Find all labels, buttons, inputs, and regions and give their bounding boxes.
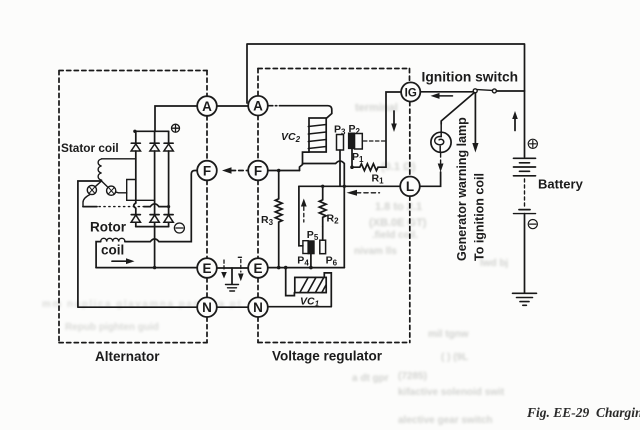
wire: IG to switch <box>420 91 473 93</box>
terminal F2 <box>248 161 268 181</box>
terminal N1 <box>197 297 217 317</box>
arrow: down (dashed) at E ground <box>221 260 227 279</box>
arrow: left flow toward IG <box>431 93 453 99</box>
ignition switch contacts <box>473 89 477 93</box>
terminal A2 <box>248 96 268 116</box>
svg-text:Alternator: Alternator <box>95 349 160 364</box>
svg-text:Voltage regulator: Voltage regulator <box>272 349 383 364</box>
terminal L <box>400 177 420 197</box>
svg-text:E: E <box>202 261 211 276</box>
svg-text:N: N <box>253 300 263 315</box>
wire: E rail in alternator <box>96 267 197 269</box>
diode D2 <box>150 131 159 214</box>
wire: L rail <box>299 185 400 187</box>
terminal letters <box>202 99 414 316</box>
svg-text:A: A <box>202 99 212 114</box>
terminal E2 <box>248 258 268 278</box>
wire: lamp to L (dashed with down arrow) <box>440 154 442 164</box>
wire: A1-A2 link <box>217 105 248 107</box>
wire: E rail in regulator <box>268 267 345 269</box>
wire: R1 to IG <box>386 92 401 167</box>
VC2 armature to F line <box>300 152 310 170</box>
resistor R1 <box>352 164 386 171</box>
svg-text:Generator warning lamp: Generator warning lamp <box>455 117 469 261</box>
battery minus mark <box>528 220 537 229</box>
wire: rectifier + bus <box>135 130 169 132</box>
arrow: field current <box>112 258 135 264</box>
wire: VC1 right lead to N rail <box>268 273 332 307</box>
svg-text:Stator coil: Stator coil <box>61 141 119 155</box>
contact P5 (moving, solid) <box>308 241 314 254</box>
wire: top bus from A2 to battery <box>247 44 525 157</box>
rotor coil <box>101 238 125 241</box>
svg-text:coil: coil <box>101 243 124 258</box>
arrow: left flow (dashed) on L rail <box>347 190 380 196</box>
svg-text:P4: P4 <box>297 255 309 268</box>
wire: armature bar to E drop (hop over P3 drop) <box>303 161 345 268</box>
terminal E1 <box>197 258 217 278</box>
wire: rectifier - bus <box>136 226 169 228</box>
wire: dashed from P2 partner to IG drop <box>364 140 386 142</box>
wire: P5 stem to E rail <box>310 254 312 268</box>
svg-text:L: L <box>406 179 414 194</box>
terminal IG <box>401 82 420 101</box>
diode D3 <box>164 131 173 214</box>
battery internal dashed link <box>524 179 526 207</box>
wire: A1 to rectifier + bus <box>155 106 197 131</box>
svg-text:P5: P5 <box>307 229 319 242</box>
diode D1 <box>131 131 140 203</box>
arrow: up flow (dashed) in P5 loop <box>301 199 307 223</box>
wire: VC1 left lead to E rail <box>286 268 295 296</box>
svg-text:E: E <box>253 261 262 276</box>
battery plus mark <box>528 139 537 148</box>
wire: N1-N2 link <box>217 306 248 308</box>
wire: rotor right lead to F1 (hop over rectifier drop) <box>125 171 197 242</box>
resistor R3 <box>275 171 282 268</box>
svg-text:F: F <box>254 163 262 178</box>
wire: P2 drop to node P1 <box>351 149 353 167</box>
svg-text:F: F <box>203 163 211 178</box>
svg-text:VC1: VC1 <box>300 296 320 309</box>
wire: R2 to P6 <box>322 227 324 241</box>
minus terminal mark of rectifier <box>174 223 184 233</box>
terminal N2 <box>248 297 268 317</box>
relay coil VC2 <box>308 118 326 152</box>
ground at E <box>226 268 239 291</box>
contact P2 (moving, solid) <box>349 133 355 148</box>
contact P5 partner <box>303 241 308 254</box>
wire: F1-F2 dashed with left arrow <box>222 167 248 174</box>
ghost bleed-through text placeholders <box>355 102 398 114</box>
svg-text:A: A <box>253 99 263 114</box>
diode D4 <box>131 215 140 227</box>
voltage regulator box (dashed) <box>258 69 410 343</box>
terminal F1 <box>197 161 217 181</box>
svg-text:P3: P3 <box>334 124 346 137</box>
terminal circles <box>197 82 420 317</box>
wire: switch to warning lamp (diagonal) <box>441 93 474 124</box>
alternator box (dashed) <box>59 71 207 343</box>
svg-text:R2: R2 <box>327 213 340 226</box>
svg-text:P1: P1 <box>352 151 364 164</box>
wire: E1-E2 link <box>217 267 248 269</box>
arrow: down flow beside IG drop <box>391 111 397 132</box>
wire: to ignition coil with down arrow <box>474 93 476 144</box>
node: + bus junction <box>133 130 136 133</box>
ground under battery <box>513 293 537 305</box>
diode D5 <box>150 215 159 227</box>
wire: battery to ground <box>524 214 526 293</box>
svg-text:Ignition switch: Ignition switch <box>422 70 519 85</box>
svg-text:P2: P2 <box>349 123 361 136</box>
terminal A1 <box>197 96 217 116</box>
arrow: up (dashed) at E ground <box>238 257 244 281</box>
svg-text:R3: R3 <box>261 214 274 227</box>
wire: third phase lead (dash-dot) to right string <box>83 206 97 208</box>
wire: P3 drop to L rail <box>339 150 341 186</box>
wire: star point to N rail <box>78 181 197 307</box>
stator coil winding <box>83 159 155 207</box>
generator warning lamp <box>431 132 451 152</box>
diode D6 <box>164 215 173 227</box>
contact P3 <box>337 135 344 151</box>
resistor R2 <box>319 186 326 226</box>
svg-text:Rotor: Rotor <box>90 220 127 235</box>
wire: left string crossing hop <box>134 203 136 215</box>
plus terminal mark of rectifier <box>172 124 180 132</box>
svg-text:IG: IG <box>405 87 417 99</box>
svg-text:N: N <box>202 300 212 315</box>
svg-text:VC2: VC2 <box>281 131 301 144</box>
svg-text:To ignition coil: To ignition coil <box>473 173 487 261</box>
arrow: up flow beside battery wire <box>512 111 518 131</box>
svg-text:R1: R1 <box>372 173 385 186</box>
node P1 <box>350 165 354 169</box>
svg-text:Battery: Battery <box>538 177 584 192</box>
wire: F2 to armature <box>268 170 300 172</box>
wire: rotor left lead to E rail <box>96 242 101 268</box>
wire: rectifier output down to E rail <box>154 227 156 268</box>
svg-text:P6: P6 <box>326 255 338 268</box>
contact P2 partner <box>355 134 363 150</box>
wire: A2 to P3 (dash-dot then solid) <box>268 105 280 107</box>
relay coil VC1 <box>295 277 326 292</box>
battery plates <box>514 158 536 213</box>
wire: L rail left drop to P5 <box>299 186 303 246</box>
contact P6 <box>320 240 326 254</box>
